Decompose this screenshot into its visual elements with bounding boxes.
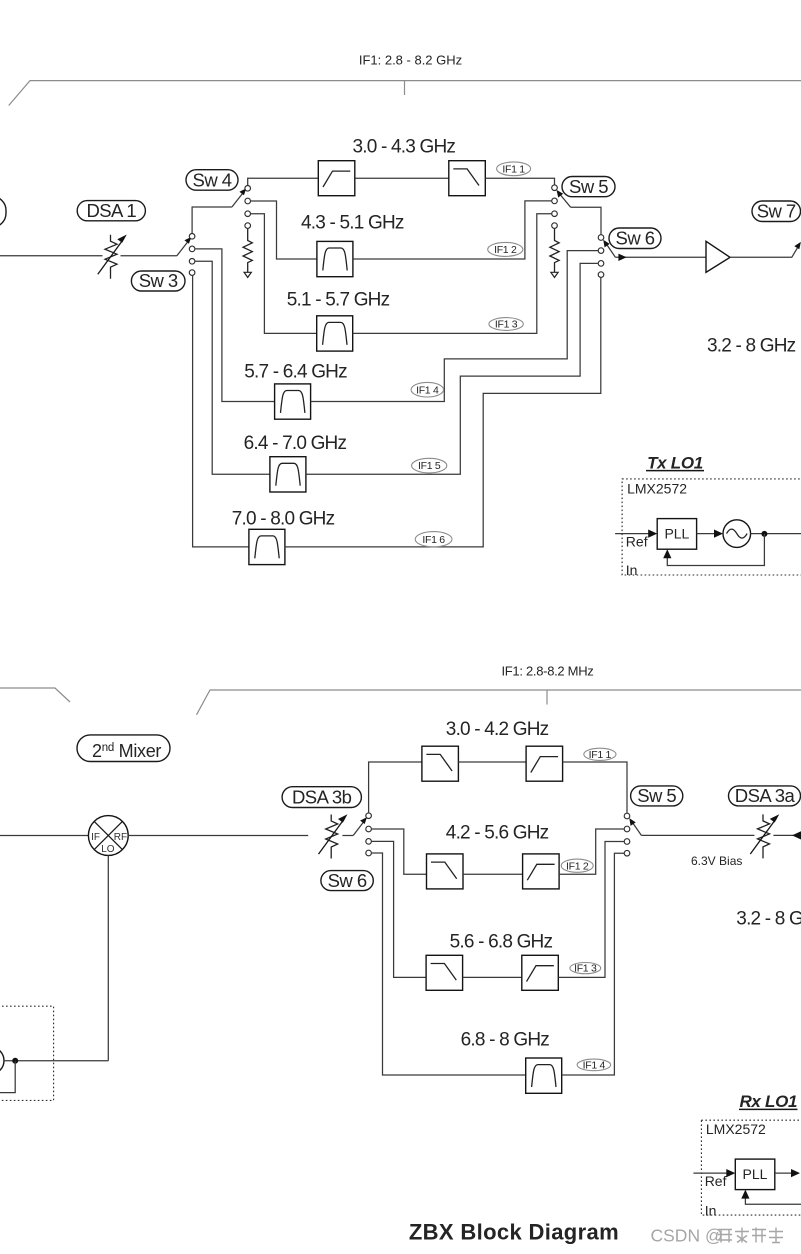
wire path2 to Sw5 c2 (353, 201, 552, 259)
svg-text:Sw 6: Sw 6 (328, 870, 367, 891)
Sw4 pole contact (245, 186, 251, 192)
switch Sw5b arm (632, 822, 641, 835)
Tx LO1 dotted box LMX2572 (622, 479, 801, 575)
Tx LO1 wire PLL to VCO (697, 533, 716, 535)
filter LPF rx path3 (426, 955, 463, 990)
bracket IF1 bottom center tick (546, 690, 548, 705)
wire Sw6 to amplifier with flow arrow (615, 256, 706, 258)
svg-text:Rx LO1: Rx LO1 (739, 1092, 797, 1111)
wire between rx path3 filters (463, 976, 522, 978)
filter BPF path6 (249, 529, 285, 564)
svg-text:IF1 4: IF1 4 (583, 1060, 606, 1072)
Sw5 pill (562, 177, 615, 197)
svg-text:3.0 - 4.2 GHz: 3.0 - 4.2 GHz (446, 719, 549, 740)
DSA 3b pill (282, 787, 361, 808)
wire osc to mixer LO (4, 1060, 108, 1062)
DSA 3a pill (729, 786, 801, 806)
DSA 1 pill (77, 201, 145, 221)
filter BPF rx path4 (526, 1058, 562, 1093)
svg-text:Ref: Ref (626, 534, 648, 550)
switch Sw6b arm (353, 821, 364, 835)
node IF1 4 (411, 382, 443, 397)
wire rx path3 to Sw5b c3 (558, 842, 624, 978)
svg-text:IF1 2: IF1 2 (566, 860, 589, 872)
wire Sw6b c4 to path4 (372, 853, 526, 1075)
Tx LO1 feedback wire (667, 534, 764, 566)
svg-text:IF1 6: IF1 6 (422, 534, 445, 546)
svg-text:IF1 3: IF1 3 (574, 963, 597, 975)
bracket IF1 top center tick (404, 81, 406, 95)
Sw6 contact 3 (598, 261, 604, 267)
wire Sw4 c2 to path2 (251, 201, 317, 259)
svg-text:Sw 4: Sw 4 (193, 169, 232, 190)
node IF1 1 (497, 162, 531, 176)
svg-text:LMX2572: LMX2572 (706, 1121, 766, 1137)
Tx LO1 input wire (615, 533, 649, 535)
svg-text:Sw 7: Sw 7 (757, 201, 796, 222)
wire amplifier to Sw7 (730, 246, 799, 258)
svg-text:In: In (626, 562, 638, 578)
node IF1 5 (412, 458, 447, 473)
watermark CSDN (651, 1226, 784, 1246)
Sw4 pill (186, 170, 238, 191)
filter BPF path2 (317, 241, 353, 276)
svg-text:IF1: 2.8-8.2 MHz: IF1: 2.8-8.2 MHz (501, 664, 593, 679)
Sw5b contact 3 (624, 839, 630, 845)
termination resistor under Sw4 c4 (243, 229, 252, 278)
Sw6b contact 2 (366, 826, 372, 832)
wire mixer to DSA3b (128, 835, 353, 837)
node IF1 2 rx (561, 859, 593, 872)
filter BPF path4 (275, 384, 311, 419)
oscillator (cut at edge) (0, 1047, 4, 1074)
amplifier U1 (706, 241, 730, 272)
Rx LO2 dotted box (cut) (0, 1006, 54, 1100)
svg-text:Sw 5: Sw 5 (637, 785, 676, 806)
Sw3 contact 1 (189, 234, 195, 240)
wire Sw3 c2 to path4 (195, 249, 274, 402)
Sw6 contact 4 (598, 272, 604, 278)
Sw6 bottom pill (321, 871, 373, 891)
Sw6 pole contact (598, 235, 604, 241)
wire Sw6b c1 to path1 (369, 762, 422, 813)
svg-text:RF: RF (114, 832, 127, 843)
Sw5 contact 2 (552, 198, 558, 204)
wire DSA3a to edge with rx flow arrow (773, 834, 801, 836)
Rx LO1 feedback wire (745, 1197, 801, 1204)
node IF1 6 (415, 532, 452, 547)
Sw4 contact 2 (245, 198, 251, 204)
node IF1 2 (488, 242, 523, 256)
switch Sw3 arm (177, 241, 188, 256)
svg-text:5.7 - 6.4 GHz: 5.7 - 6.4 GHz (244, 362, 347, 383)
filter HPF path1 (318, 161, 355, 196)
svg-text:3.0 - 4.3 GHz: 3.0 - 4.3 GHz (353, 136, 456, 157)
svg-text:LO: LO (101, 844, 115, 855)
mixer M2 (88, 816, 128, 856)
node IF1 1 rx (584, 748, 616, 760)
Sw3 contact 3 (189, 259, 195, 265)
svg-text:5.1 - 5.7 GHz: 5.1 - 5.7 GHz (287, 290, 390, 311)
Rx LO1 dotted box LMX2572 (701, 1120, 801, 1215)
wire input to DSA1 (0, 255, 177, 257)
wire rx path4 to Sw5b c4 (562, 853, 624, 1075)
wire between rx path2 filters (463, 873, 523, 875)
svg-text:PLL: PLL (743, 1166, 768, 1182)
svg-text:Ref: Ref (705, 1173, 727, 1189)
wire Sw3 c1 to Sw4 arm (192, 207, 232, 233)
Sw5b contact 2 (624, 826, 630, 832)
junction dot Tx LO1 (761, 531, 767, 537)
Sw7 pill (752, 201, 801, 222)
wire Sw5 arm to Sw6 pole (571, 207, 601, 234)
filter HPF rx path2 (523, 854, 560, 889)
Tx LO1 PLL box (657, 519, 696, 550)
svg-text:IF1: 2.8 - 8.2 GHz: IF1: 2.8 - 8.2 GHz (359, 53, 462, 68)
wire Sw3 c3 to path5 (195, 261, 270, 474)
svg-text:CSDN @: CSDN @ (651, 1226, 723, 1246)
wire rx path2 to Sw5b c2 (559, 829, 624, 874)
Sw3 contact 2 (189, 246, 195, 252)
node IF1 3 rx (570, 963, 601, 974)
Sw5 contact 1 (552, 185, 558, 191)
Sw5 bottom pill (631, 786, 683, 806)
node IF1 4 rx (577, 1059, 611, 1071)
svg-text:IF1 1: IF1 1 (502, 163, 525, 175)
svg-text:IF1 1: IF1 1 (589, 749, 612, 761)
Rx LO1 PLL box (735, 1159, 775, 1190)
filter LPF path1 (449, 161, 486, 196)
filter LPF rx path1 (422, 746, 459, 781)
Sw6b contact 4 (366, 850, 372, 856)
wire Sw4 pole up to path1 (248, 178, 319, 185)
attenuator DSA1 (98, 235, 127, 279)
switch Sw4 arm (232, 193, 243, 208)
switch Sw6 arm (606, 244, 615, 257)
Sw3 contact 4 (189, 270, 195, 276)
filter LPF rx path2 (427, 854, 464, 889)
bracket IF1 bottom (197, 690, 801, 715)
wire Sw3 c4 to path6 (193, 276, 249, 547)
wire mixer LO down (107, 855, 109, 1060)
Sw6b contact 1 (366, 813, 372, 819)
svg-text:IF1 2: IF1 2 (494, 244, 517, 256)
wire between rx path1 filters (458, 761, 526, 763)
svg-text:IF: IF (91, 832, 100, 843)
svg-text:6.3V Bias: 6.3V Bias (691, 854, 742, 868)
filter BPF path3 (317, 316, 353, 351)
svg-text:Sw 3: Sw 3 (139, 270, 178, 291)
filter BPF path5 (270, 457, 306, 492)
svg-text:3.2 - 8 GHz: 3.2 - 8 GHz (736, 909, 801, 930)
svg-text:IF1 4: IF1 4 (416, 384, 439, 396)
svg-text:4.2 - 5.6 GHz: 4.2 - 5.6 GHz (446, 823, 549, 844)
2nd Mixer pill (77, 735, 170, 762)
Tx LO1 output wire (751, 533, 801, 535)
svg-text:PLL: PLL (664, 526, 689, 542)
feedback wire LO2 (0, 1061, 15, 1093)
Rx LO1 output wire (775, 1172, 792, 1174)
partial pill left edge (cut) (0, 196, 6, 227)
wire path3 to Sw5 c3 (353, 214, 552, 334)
svg-text:IF1 5: IF1 5 (418, 460, 441, 472)
wire Sw6b c3 to path3 (372, 841, 426, 977)
wire path6 to Sw6 c4 (285, 278, 601, 547)
svg-text:4.3 - 5.1 GHz: 4.3 - 5.1 GHz (301, 213, 404, 234)
node IF1 3 (489, 318, 523, 331)
Tx LO1 VCO oscillator (723, 520, 751, 548)
bracket left end (cut) (0, 688, 70, 702)
Sw5 contact 4 (552, 223, 558, 229)
Sw4 contact 3 (245, 211, 251, 217)
Rx LO1 input wire (693, 1172, 727, 1174)
svg-text:Sw 5: Sw 5 (569, 176, 608, 197)
filter HPF rx path1 (526, 746, 563, 781)
wire between path1 filters (355, 177, 449, 179)
filter HPF rx path3 (522, 955, 559, 990)
svg-text:ZBX Block Diagram: ZBX Block Diagram (409, 1220, 619, 1245)
Sw6 pill (609, 228, 661, 249)
wire Sw5b to DSA3a (641, 834, 754, 836)
svg-text:7.0 - 8.0 GHz: 7.0 - 8.0 GHz (232, 509, 335, 530)
attenuator DSA3b (319, 814, 348, 858)
wire rx path1 to Sw5b c1 (563, 762, 627, 813)
wire path5 to Sw6 c3 (306, 263, 598, 474)
svg-text:DSA 3a: DSA 3a (735, 785, 796, 806)
svg-text:6.4 - 7.0 GHz: 6.4 - 7.0 GHz (244, 433, 347, 454)
Sw6b contact 3 (366, 839, 372, 845)
svg-text:Tx LO1: Tx LO1 (647, 453, 703, 472)
wire input to mixer (0, 835, 88, 837)
termination resistor under Sw5 c4 (550, 229, 559, 278)
svg-text:6.8 - 8 GHz: 6.8 - 8 GHz (461, 1030, 550, 1051)
attenuator DSA3a (750, 814, 779, 858)
Sw5 contact 3 (552, 211, 558, 217)
svg-text:In: In (705, 1202, 717, 1218)
wire path1 to Sw5 (485, 178, 554, 184)
svg-text:DSA 1: DSA 1 (86, 200, 136, 221)
Sw5b contact 1 (624, 813, 630, 819)
wire Sw4 c3 to path3 (251, 214, 317, 334)
bracket IF1 top (9, 81, 801, 106)
wire Sw6b c2 to path2 (372, 829, 427, 874)
svg-text:Sw 6: Sw 6 (616, 228, 655, 249)
switch Sw5 arm (560, 194, 571, 207)
Sw4 contact 4 (245, 223, 251, 229)
svg-text:DSA 3b: DSA 3b (292, 786, 352, 807)
svg-text:IF1 3: IF1 3 (495, 319, 518, 331)
junction dot LO2 (12, 1058, 18, 1064)
svg-text:3.2 - 8 GHz: 3.2 - 8 GHz (707, 336, 796, 357)
wire path4 to Sw6 c2 (311, 251, 598, 402)
svg-text:LMX2572: LMX2572 (627, 481, 687, 497)
Sw6 contact 2 (598, 248, 604, 254)
svg-text:5.6 - 6.8 GHz: 5.6 - 6.8 GHz (450, 932, 553, 953)
Sw3 pill (131, 271, 185, 291)
Sw5b contact 4 (624, 850, 630, 856)
